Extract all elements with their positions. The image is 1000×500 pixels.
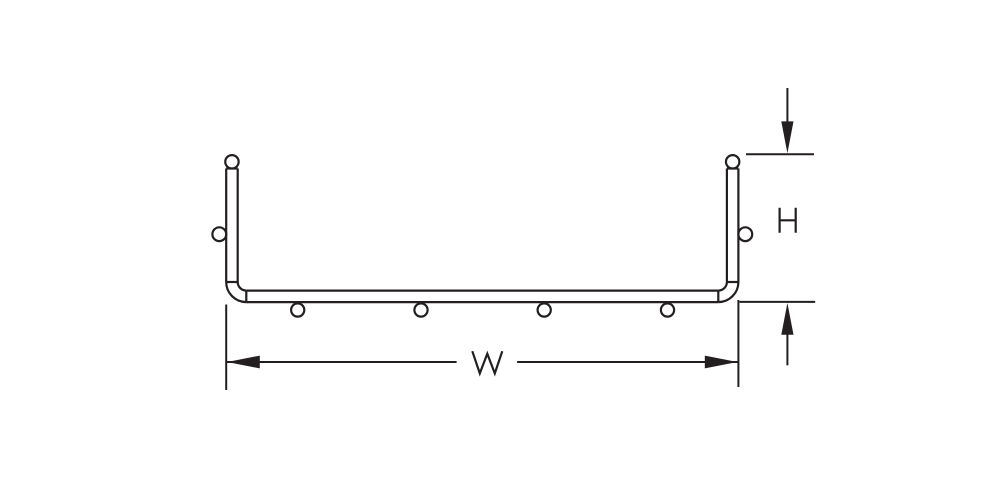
W dimension line left segment [227, 361, 457, 363]
H top extension line [746, 153, 814, 155]
H bottom arrow leader [786, 332, 788, 365]
right side longitudinal wire [738, 227, 752, 241]
right top longitudinal wire [726, 155, 739, 168]
H top arrowhead [781, 121, 793, 153]
label H [780, 208, 796, 233]
W right arrowhead [705, 356, 738, 369]
label W [472, 351, 502, 373]
W left arrowhead [227, 356, 260, 369]
W dimension line right segment [517, 361, 738, 363]
H bottom arrowhead [781, 303, 793, 335]
bottom longitudinal wire 4 [661, 303, 674, 316]
bottom longitudinal wire 2 [414, 303, 427, 316]
left side longitudinal wire [212, 227, 226, 241]
H bottom extension line [740, 301, 816, 303]
W right extension line [737, 300, 739, 387]
left side rail wire (vertical tube) [226, 169, 246, 303]
bottom longitudinal wire 3 [538, 303, 551, 316]
W left extension line [225, 305, 227, 391]
bottom longitudinal wire 1 [291, 303, 304, 316]
left top longitudinal wire [225, 155, 238, 168]
H top arrow leader [786, 88, 788, 124]
bottom rail wire (horizontal tube) [246, 291, 718, 303]
right side rail wire (vertical tube) [718, 169, 738, 303]
